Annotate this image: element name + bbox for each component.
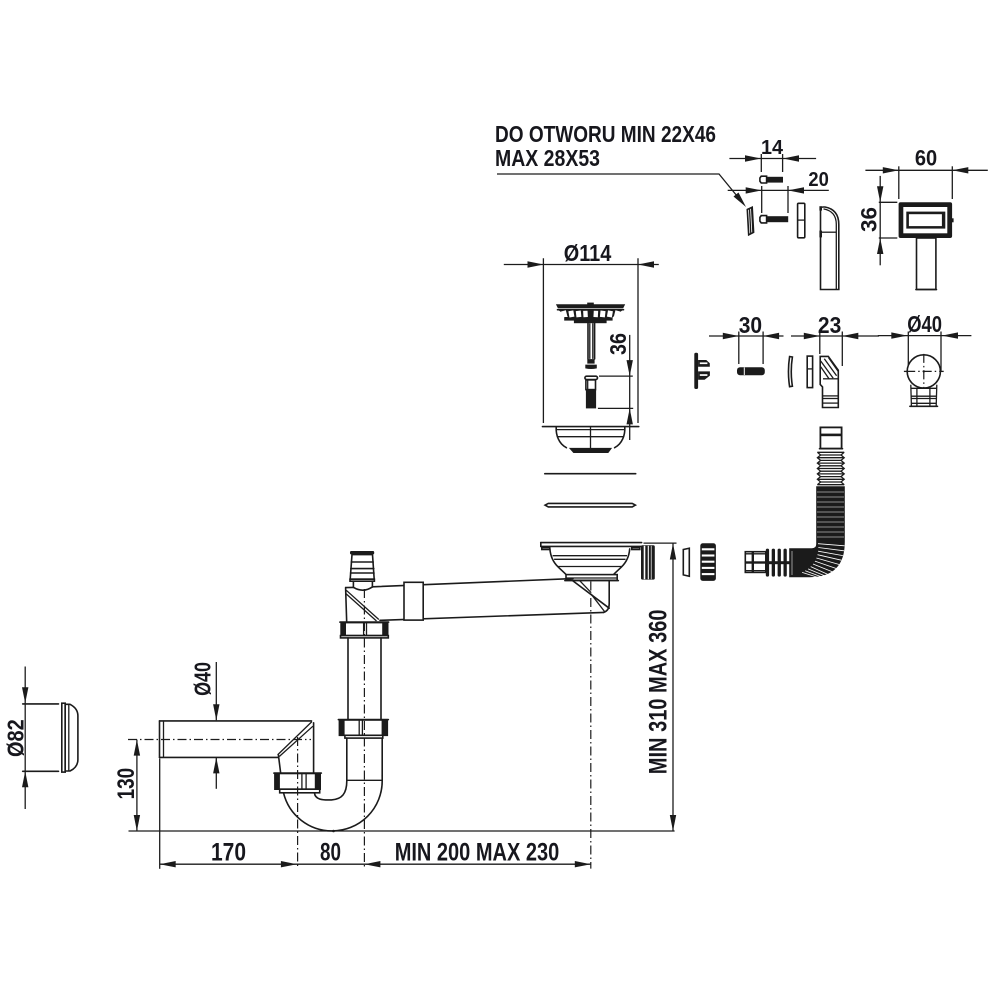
svg-text:130: 130 [113, 768, 140, 800]
dimension 60 [865, 146, 987, 199]
sink flange bowl [543, 427, 639, 453]
overflow elbow [820, 356, 838, 407]
svg-text:DO OTWORU MIN 22X46: DO OTWORU MIN 22X46 [495, 121, 716, 147]
main strainer flange [541, 543, 642, 581]
svg-text:36: 36 [857, 207, 882, 232]
svg-text:MAX 28X53: MAX 28X53 [495, 145, 600, 171]
wall pipe elbow [278, 722, 314, 774]
svg-text:Ø40: Ø40 [907, 311, 942, 337]
pipe end O40 circle [904, 354, 944, 406]
strainer stem rod [588, 323, 595, 359]
bottom dimension line [160, 759, 591, 869]
strainer bottom outlet [573, 581, 610, 613]
dimension 23 [791, 312, 879, 366]
strainer cap umbrella [556, 303, 625, 324]
leader line to seal plate [497, 174, 746, 207]
wall pipe [160, 721, 312, 758]
overflow inner plate [798, 203, 805, 238]
overflow faceplate [899, 202, 954, 238]
horizontal pipe [346, 579, 604, 621]
svg-text:23: 23 [818, 312, 841, 338]
screw long (20) [760, 216, 788, 223]
dimension 30 [709, 312, 784, 364]
svg-text:20: 20 [808, 169, 828, 191]
pipe coupling sleeve [404, 582, 423, 620]
lower nut [338, 720, 388, 739]
svg-text:Ø82: Ø82 [2, 719, 28, 757]
dimension 130 [113, 740, 140, 831]
dimension 36 overflow [857, 176, 898, 265]
wall flange O82 [23, 703, 78, 772]
dishwasher barb [350, 551, 374, 590]
centerline right tube [363, 589, 365, 869]
down pipe [348, 638, 381, 720]
basket plug [585, 376, 598, 408]
centerline strainer [590, 582, 592, 869]
stem collar [585, 359, 597, 369]
svg-text:MIN 310 MAX 360: MIN 310 MAX 360 [645, 610, 673, 775]
bevel gasket [545, 503, 635, 507]
svg-text:36: 36 [605, 333, 631, 355]
curved washer [788, 357, 792, 387]
wall anchor clip [694, 353, 710, 389]
dimension MIN 310 MAX 360 [644, 543, 677, 831]
svg-text:Ø114: Ø114 [564, 240, 612, 266]
strainer side outlet nut [641, 545, 655, 579]
dimension 14 [729, 137, 816, 172]
faceplate stem [916, 238, 937, 290]
side washer [683, 548, 689, 576]
flat washer [807, 356, 812, 388]
trap right tube [347, 738, 382, 780]
overflow cover curved [819, 206, 838, 289]
svg-text:MIN 200 MAX 230: MIN 200 MAX 230 [395, 839, 560, 867]
dimension O114 [504, 240, 659, 423]
wall pipe centerline [128, 739, 311, 741]
svg-text:30: 30 [739, 312, 762, 338]
dimension 20 [728, 169, 829, 213]
note DO OTWORU text [495, 121, 716, 171]
svg-text:170: 170 [211, 839, 246, 867]
svg-text:60: 60 [915, 146, 937, 171]
trap inlet nut [274, 773, 321, 793]
upper elbow miter [346, 588, 379, 623]
svg-text:14: 14 [761, 137, 784, 159]
dimension O40 top right [878, 311, 972, 372]
screw short (14) [760, 176, 783, 183]
trap U bend [284, 776, 383, 831]
centerline left tube [297, 737, 299, 869]
dimension O82 [2, 667, 28, 810]
upper nut [340, 622, 389, 638]
flat gasket [545, 473, 636, 475]
svg-text:Ø40: Ø40 [190, 662, 216, 696]
svg-text:80: 80 [320, 839, 341, 867]
grub screw 30 [737, 367, 765, 375]
flexible hose [745, 427, 845, 577]
trap bottom tangent line [129, 830, 675, 833]
seal plate tilted [747, 207, 753, 235]
dimension O40 left [190, 662, 220, 789]
dimension 36 plug [598, 333, 633, 440]
knurled nut [700, 543, 716, 581]
